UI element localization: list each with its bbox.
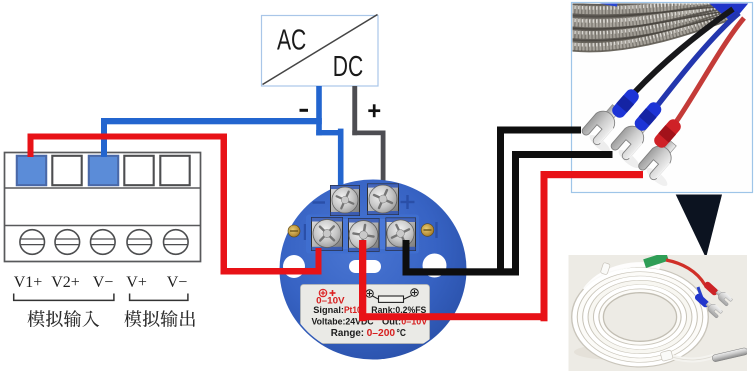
- svg-text:V+: V+: [126, 274, 147, 291]
- svg-text:DC: DC: [333, 51, 363, 83]
- svg-text:V2+: V2+: [51, 274, 80, 291]
- svg-text:V−: V−: [93, 274, 114, 291]
- svg-text:V−: V−: [167, 274, 188, 291]
- svg-text:Range:0–200°C: Range:0–200°C: [331, 328, 406, 339]
- svg-text:V1+: V1+: [14, 274, 43, 291]
- svg-text:AC: AC: [277, 24, 306, 56]
